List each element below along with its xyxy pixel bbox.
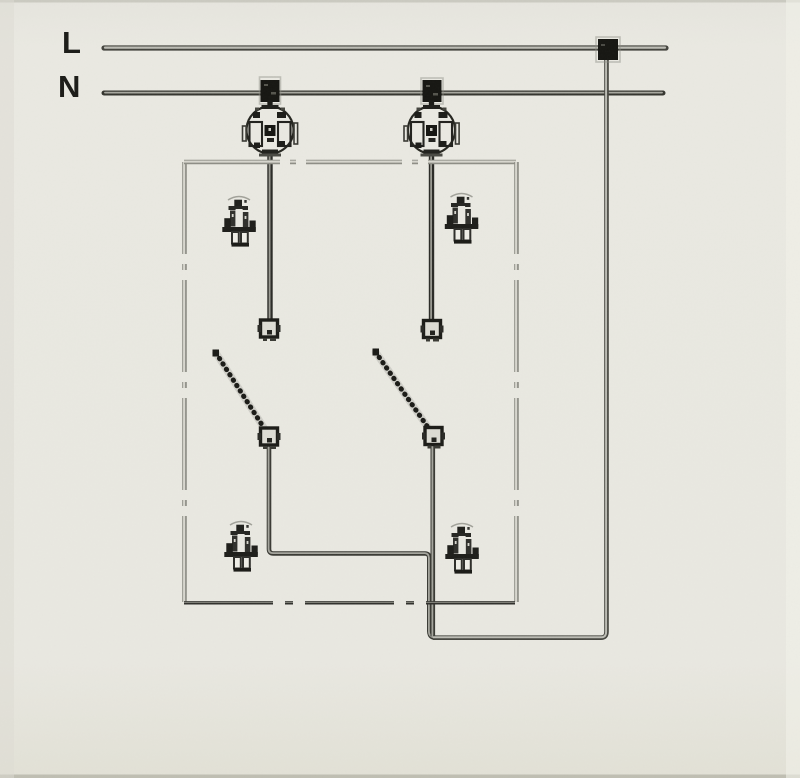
switch2 lever (beaded) xyxy=(373,349,428,427)
switch1 top terminal xyxy=(258,320,281,341)
wire switch1 output to bottom xyxy=(269,444,436,638)
switch1 lever (beaded) xyxy=(213,350,265,429)
junction box top edge (dashed) xyxy=(184,159,516,164)
lamp 1 xyxy=(243,101,298,157)
switch2 bottom terminal xyxy=(422,428,445,449)
junction box bottom edge (dark dashed) xyxy=(184,601,516,605)
figure icon top-right xyxy=(445,194,479,244)
wire bottom run and right riser to L xyxy=(433,59,607,638)
wire lamp1 drop xyxy=(267,100,273,322)
junction J2 on N line xyxy=(421,78,443,104)
wire switch2 output to bottom xyxy=(430,444,435,637)
svg-text:N: N xyxy=(58,69,80,104)
junction box left edge (dashed) xyxy=(182,162,187,602)
figure icon bottom-right xyxy=(445,524,479,574)
wire N line xyxy=(104,90,663,95)
lamp 2 xyxy=(404,101,459,157)
wire L line xyxy=(104,45,666,51)
switch2 top terminal xyxy=(421,321,444,342)
switch1 bottom terminal xyxy=(258,428,281,449)
junction box right edge (dashed) xyxy=(514,162,519,602)
wire lamp2 drop xyxy=(428,100,434,322)
figure icon bottom-left xyxy=(224,522,257,572)
junction J3 on L line xyxy=(596,37,620,62)
svg-text:L: L xyxy=(62,25,81,60)
figure icon top-left xyxy=(222,197,256,247)
junction J1 on N line xyxy=(260,77,281,104)
